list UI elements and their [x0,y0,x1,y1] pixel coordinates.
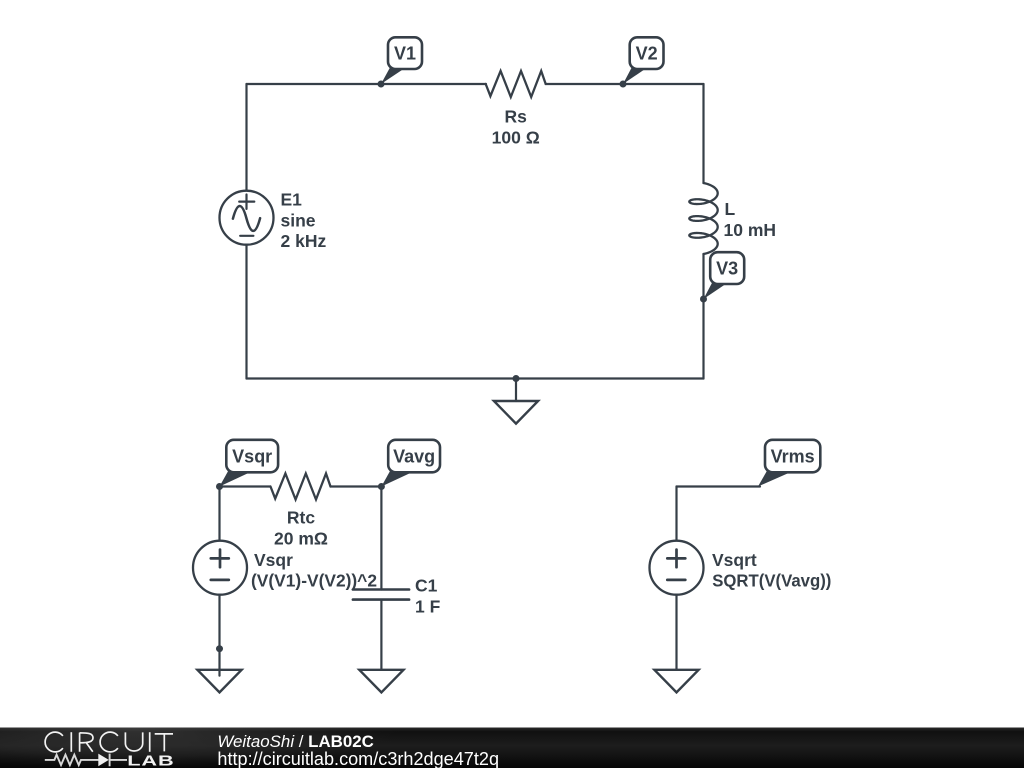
svg-text:Rs: Rs [505,106,528,126]
svg-text:Vrms: Vrms [771,447,815,467]
svg-text:V1: V1 [394,44,416,64]
svg-text:100 Ω: 100 Ω [492,127,540,147]
svg-text:LAB: LAB [127,752,174,768]
svg-text:Vsqrt: Vsqrt [712,550,757,570]
svg-text:C1: C1 [415,576,438,596]
svg-text:Rtc: Rtc [287,508,315,528]
svg-text:Vsqr: Vsqr [232,447,272,467]
svg-text:http://circuitlab.com/c3rh2dge: http://circuitlab.com/c3rh2dge47t2q [217,749,499,768]
svg-text:1 F: 1 F [415,597,441,617]
svg-text:L: L [725,199,736,219]
svg-text:Vsqr: Vsqr [254,550,293,570]
svg-text:sine: sine [281,211,316,231]
svg-text:(V(V1)-V(V2))^2: (V(V1)-V(V2))^2 [251,570,377,590]
svg-text:V2: V2 [636,44,658,64]
svg-text:20 mΩ: 20 mΩ [274,529,328,549]
svg-text:Vavg: Vavg [393,447,435,467]
svg-text:WeitaoShi / LAB02C: WeitaoShi / LAB02C [217,732,373,751]
svg-text:2 kHz: 2 kHz [281,231,327,251]
svg-text:10 mH: 10 mH [724,220,777,240]
svg-text:V3: V3 [716,259,738,279]
svg-text:SQRT(V(Vavg)): SQRT(V(Vavg)) [712,570,831,590]
svg-text:E1: E1 [281,190,303,210]
